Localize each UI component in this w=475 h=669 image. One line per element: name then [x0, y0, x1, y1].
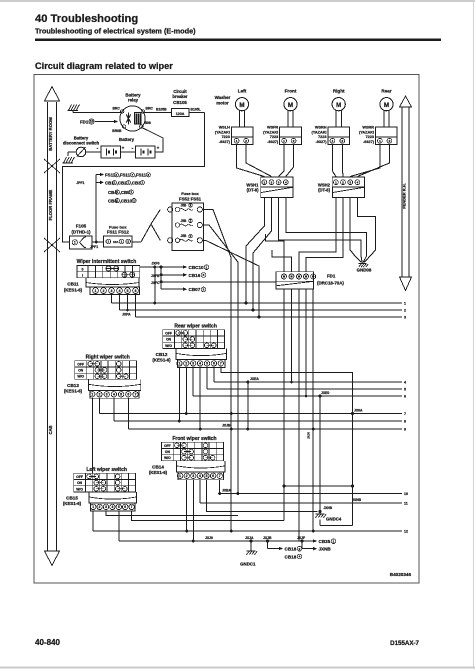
svg-text:WSRR: WSRR [362, 126, 374, 130]
junction JXEA on line 4 with drop to line 9 [246, 377, 259, 431]
label FD1(10) with arrow to relay coil [80, 119, 118, 124]
svg-text:10: 10 [90, 120, 94, 124]
svg-text:(YAZAKI: (YAZAKI [311, 130, 326, 134]
svg-text:ON: ON [77, 481, 83, 485]
svg-text:Left: Left [238, 89, 247, 94]
wires to FD1 pins 1-2 [266, 234, 292, 272]
svg-text:ON: ON [78, 369, 84, 373]
svg-text:1: 1 [404, 302, 406, 306]
svg-text:4: 4 [199, 362, 201, 366]
svg-text:JXJ0: JXJ0 [205, 536, 213, 540]
fuse box FS11 FS12 [104, 225, 132, 248]
svg-text:1: 1 [141, 181, 143, 185]
svg-text:2: 2 [245, 139, 247, 143]
battery relay [112, 93, 153, 133]
svg-text:B105B: B105B [156, 107, 167, 111]
svg-text:JXNB: JXNB [319, 547, 332, 552]
svg-text:3: 3 [105, 505, 107, 509]
ground (battery relay input) [68, 104, 80, 112]
svg-text:Wiper intermittent switch: Wiper intermittent switch [77, 259, 137, 265]
svg-text:I: I [82, 273, 83, 277]
svg-text:BRC: BRC [112, 107, 120, 111]
svg-text:7: 7 [131, 505, 133, 509]
svg-text:OFF: OFF [164, 444, 171, 448]
svg-text:1: 1 [133, 199, 135, 203]
svg-text:CB105: CB105 [173, 100, 187, 105]
washer motor Left (M) [235, 89, 248, 127]
svg-text:4: 4 [404, 381, 406, 385]
svg-text:7223: 7223 [366, 135, 374, 139]
svg-text:ON: ON [165, 450, 171, 454]
connector WSH1 (DT-8) [246, 177, 293, 197]
svg-text:+: + [122, 146, 125, 151]
svg-text:F105: F105 [76, 224, 87, 229]
right section bar (FENDER R.H.) [400, 96, 412, 291]
svg-text:FS52 FS51: FS52 FS51 [179, 197, 202, 202]
wire CB105 to floor frame feed (label B105L) [63, 107, 205, 242]
svg-text:-9327): -9327) [219, 140, 231, 144]
svg-text:-: - [132, 146, 134, 152]
svg-text:3: 3 [111, 289, 113, 293]
connector CB13 (KES1-6) [64, 379, 141, 398]
junction dots on lines 1-3 [245, 302, 261, 319]
wires CB11 pins to lines 1-3 (junction JXPA) [112, 294, 136, 317]
svg-text:1: 1 [113, 181, 115, 185]
junction JX0A on line 7 with drop [351, 408, 363, 525]
svg-text:,CB2: ,CB2 [117, 180, 128, 185]
svg-text:ON: ON [166, 338, 172, 342]
battery disconnect switch [63, 135, 100, 157]
svg-text:CB16: CB16 [189, 273, 201, 278]
svg-text:7223: 7223 [318, 135, 326, 139]
wires WSH2 pins to ground GND08 [350, 198, 375, 256]
svg-text:-9327): -9327) [316, 140, 328, 144]
page header [35, 13, 441, 40]
wire F105 to fuse box FS11 FS12 (junction JPF1) [90, 241, 104, 249]
svg-text:6: 6 [127, 392, 129, 396]
svg-text:7: 7 [131, 173, 133, 177]
svg-text:9: 9 [404, 428, 406, 432]
svg-text:7223: 7223 [221, 135, 229, 139]
svg-text:JXNB: JXNB [352, 498, 362, 502]
svg-text:CB13: CB13 [67, 383, 79, 388]
connector WSLH (YAZAKI 7223-9327) [215, 126, 253, 145]
svg-text:,FS11: ,FS11 [135, 173, 147, 178]
svg-text:5: 5 [127, 289, 129, 293]
svg-text:(DRC18-70A): (DRC18-70A) [317, 281, 344, 286]
svg-text:1: 1 [116, 199, 118, 203]
svg-text:JXFC: JXFC [151, 281, 160, 285]
svg-text:CB07: CB07 [189, 287, 201, 292]
left section bar (BATTERY ROOM / FLOOR FRAME / CAB) [44, 87, 60, 566]
svg-text:1: 1 [92, 505, 94, 509]
svg-text:3: 3 [278, 180, 280, 184]
wires WSH2 pins to FD1 [299, 198, 343, 272]
wire battery positive to relay [143, 128, 164, 152]
svg-text:Left wiper switch: Left wiper switch [86, 467, 127, 473]
connector CB11 (KES1-6) [64, 278, 140, 295]
svg-text:1: 1 [107, 240, 109, 244]
svg-text:OFF: OFF [165, 331, 172, 335]
connector CB15 (KES1-6) [63, 492, 137, 511]
svg-text:W/O: W/O [164, 456, 171, 460]
svg-text:1: 1 [127, 181, 129, 185]
svg-text:+: + [157, 146, 160, 151]
svg-text:,FS11: ,FS11 [119, 173, 131, 178]
svg-text:WSFR: WSFR [267, 126, 278, 130]
svg-text:M: M [239, 102, 244, 109]
svg-text:JXJF: JXJF [297, 536, 305, 540]
svg-text:7: 7 [220, 362, 222, 366]
svg-text:JXJ0: JXJ0 [307, 432, 311, 439]
svg-text:1: 1 [332, 139, 334, 143]
svg-text:2: 2 [299, 547, 301, 551]
svg-text:JXNB: JXNB [324, 506, 333, 510]
svg-text:1: 1 [74, 240, 76, 244]
junction dots center vertical on lines 7 and 9 (JXJB) [222, 412, 233, 431]
svg-text:5: 5 [118, 505, 120, 509]
svg-text:1: 1 [179, 474, 181, 478]
svg-text:8: 8 [147, 173, 149, 177]
svg-text:Battery: Battery [119, 137, 135, 142]
svg-text:FS11 FS12: FS11 FS12 [107, 230, 130, 235]
svg-text:M: M [384, 102, 389, 109]
svg-text:3: 3 [192, 362, 194, 366]
svg-text:JXFB: JXFB [151, 274, 160, 278]
wiper intermittent switch [77, 259, 140, 278]
svg-text:3: 3 [192, 474, 194, 478]
svg-text:1: 1 [95, 289, 97, 293]
svg-text:40-840: 40-840 [35, 638, 60, 647]
connector WSRH (YAZAKI 7223-9327) [311, 126, 349, 145]
battery 1 [86, 146, 121, 159]
svg-text:BR0B: BR0B [112, 129, 122, 133]
svg-text:,CB10: ,CB10 [120, 198, 133, 203]
svg-text:1: 1 [335, 180, 337, 184]
wire FS11/FS12 to fuse box FS52 FS51 [132, 210, 160, 243]
svg-text:(DTHD-1): (DTHD-1) [71, 229, 91, 234]
svg-text:1: 1 [130, 190, 132, 194]
svg-text:1: 1 [333, 539, 335, 543]
svg-text:1: 1 [121, 240, 123, 244]
svg-text:JXE0: JXE0 [321, 391, 329, 395]
svg-text:Troubleshooting of electrical: Troubleshooting of electrical system (E-… [35, 27, 196, 36]
harness lines to fender connector pins 1-12 [93, 302, 408, 534]
svg-text:Right wiper switch: Right wiper switch [86, 355, 130, 361]
svg-text:breaker: breaker [172, 94, 188, 99]
svg-text:120A: 120A [176, 112, 185, 116]
svg-text:W/O: W/O [76, 487, 83, 491]
svg-text:2: 2 [103, 289, 105, 293]
svg-text:3: 3 [203, 287, 205, 291]
svg-text:WSLH: WSLH [219, 126, 230, 130]
svg-text:(KES1-6): (KES1-6) [64, 389, 83, 394]
svg-text:6: 6 [115, 173, 117, 177]
junction JXBA on line 10 [218, 488, 231, 495]
diagram title [35, 61, 173, 71]
svg-text:4: 4 [285, 180, 287, 184]
svg-text:B105L: B105L [191, 107, 201, 111]
svg-text:2: 2 [271, 180, 273, 184]
svg-text:Fuse box: Fuse box [181, 191, 199, 196]
svg-text:40 Troubleshooting: 40 Troubleshooting [35, 13, 138, 25]
svg-text:GNDC4: GNDC4 [326, 517, 342, 522]
connector WSH2 (DT-8) [318, 177, 365, 197]
svg-text:3: 3 [404, 316, 406, 320]
svg-text:B08: B08 [145, 121, 151, 125]
svg-text:CB11: CB11 [67, 282, 79, 287]
svg-text:2: 2 [127, 240, 129, 244]
svg-text:GND08: GND08 [357, 268, 372, 273]
svg-text:5: 5 [206, 474, 208, 478]
svg-text:-9327): -9327) [267, 140, 279, 144]
svg-text:-9327): -9327) [363, 140, 375, 144]
junction JXE0 on line 6 with drop to GNDC4 [319, 391, 330, 512]
svg-text:2: 2 [185, 362, 187, 366]
connector WSFR (YAZAKI 7223-9327) [263, 126, 301, 145]
svg-text:7223: 7223 [270, 135, 278, 139]
junction JXJA with ground GNDC1 [240, 536, 257, 567]
svg-text:JXJB: JXJB [263, 536, 272, 540]
ground (battery disconnect switch) [64, 157, 67, 163]
svg-text:BRC: BRC [146, 107, 154, 111]
svg-text:Circuit diagram related to wip: Circuit diagram related to wiper [35, 61, 173, 71]
svg-text:OFF: OFF [76, 475, 83, 479]
washer motor Front (M) [284, 89, 297, 127]
svg-text:5: 5 [206, 362, 208, 366]
svg-text:disconnect switch: disconnect switch [63, 140, 100, 145]
svg-text:relay: relay [128, 98, 139, 103]
svg-text:2: 2 [99, 505, 101, 509]
svg-text:CB18: CB18 [285, 547, 297, 552]
svg-text:J5B: J5B [181, 234, 188, 238]
svg-text:(KES1-6): (KES1-6) [149, 470, 168, 475]
Right wiper switch contact table [75, 355, 137, 380]
svg-text:CAB: CAB [48, 425, 53, 434]
svg-text:JPF1: JPF1 [76, 181, 84, 185]
svg-text:2: 2 [99, 392, 101, 396]
svg-text:FLOOR FRAME: FLOOR FRAME [48, 189, 53, 220]
washer motor Right (M) [332, 89, 345, 127]
wires washer motor connectors to WSH1 [237, 145, 294, 177]
wire relay to circuit breaker [145, 107, 172, 112]
svg-text:GNDC1: GNDC1 [240, 562, 256, 567]
Rear wiper switch contact table [163, 324, 225, 349]
wires WSH1 pins to harness lines 1-2 [246, 198, 272, 310]
svg-text:Washer: Washer [215, 95, 231, 100]
svg-text:3: 3 [203, 273, 205, 277]
svg-text:1: 1 [116, 190, 118, 194]
svg-text:8: 8 [404, 420, 406, 424]
svg-text:W/O: W/O [77, 375, 84, 379]
svg-text:-: - [97, 146, 99, 152]
svg-text:M: M [336, 102, 341, 109]
svg-text:CB14: CB14 [152, 464, 164, 469]
svg-text:4: 4 [199, 474, 201, 478]
svg-text:3: 3 [349, 180, 351, 184]
svg-text:1: 1 [283, 139, 285, 143]
svg-text:6: 6 [213, 362, 215, 366]
wire intermittent switch to junction JXF0 taps [140, 266, 161, 305]
taps JXF0/JXFB/JXFC to CBC10, CB16, CB07 [151, 261, 276, 292]
svg-text:3: 3 [106, 392, 108, 396]
svg-text:JXPA: JXPA [122, 312, 131, 316]
svg-text:(YAZAKI: (YAZAKI [359, 130, 374, 134]
svg-text:JXBA: JXBA [222, 488, 232, 492]
svg-text:4: 4 [113, 392, 115, 396]
svg-text:CB35: CB35 [319, 539, 331, 544]
branch wire to JX0A vertical [283, 485, 355, 488]
svg-text:(KES1-6): (KES1-6) [152, 358, 171, 363]
svg-text:4: 4 [357, 180, 359, 184]
svg-text:1: 1 [178, 362, 180, 366]
junction JXJF taps to CB35 and JXNB [297, 536, 336, 552]
svg-text:JXJB: JXJB [222, 424, 231, 428]
label Washer motor [215, 95, 231, 106]
svg-text:FENDER R.H.: FENDER R.H. [402, 183, 407, 209]
svg-text:10A: 10A [113, 240, 119, 244]
battery 2 [119, 137, 160, 158]
wires CB14 pins to lines 10-11, GNDC4 feed and bottom buses [185, 480, 317, 543]
connector WSRR (YAZAKI 7223-9327) [359, 126, 397, 145]
svg-text:CB12: CB12 [156, 352, 168, 357]
svg-text:11: 11 [404, 502, 408, 506]
svg-text:Rear wiper switch: Rear wiper switch [174, 324, 217, 330]
wires FS52/FS51 outputs to center verticals [202, 210, 259, 532]
Front wiper switch contact table [162, 436, 224, 461]
svg-text:5: 5 [404, 388, 406, 392]
bottom bus line junction dots (to pin 12) [230, 530, 315, 533]
svg-text:BATTERY ROOM: BATTERY ROOM [48, 117, 53, 151]
svg-text:M: M [288, 102, 293, 109]
svg-text:WSRH: WSRH [315, 126, 327, 130]
svg-text:10: 10 [404, 492, 408, 496]
connector CB12 (KES1-6) [152, 348, 226, 367]
wires CB12 pins to lines 4-9 [178, 367, 353, 430]
feed taps list JPF1 (FS11/CB1 etc.) [76, 173, 150, 243]
diagram border frame [34, 75, 419, 584]
svg-text:2: 2 [186, 474, 188, 478]
svg-text:7: 7 [219, 474, 221, 478]
junction dot line 10 fuse vertical [236, 492, 239, 495]
bottom bus JXJ line [119, 536, 302, 541]
svg-text:JXJA: JXJA [245, 536, 254, 540]
svg-text:B4020346: B4020346 [390, 572, 412, 577]
svg-text:Right: Right [333, 89, 345, 94]
svg-text:(KES1-6): (KES1-6) [64, 288, 83, 293]
wire ground to battery relay [73, 112, 121, 114]
wires washer motor connectors to WSH2 [332, 145, 389, 177]
svg-text:JPF1: JPF1 [90, 245, 98, 249]
page footer [35, 638, 420, 647]
svg-text:JX0A: JX0A [354, 408, 363, 412]
svg-text:FD1: FD1 [327, 274, 336, 279]
svg-text:2: 2 [389, 139, 391, 143]
svg-text:Front: Front [285, 89, 297, 94]
svg-text:1: 1 [91, 392, 93, 396]
svg-text:Rear: Rear [381, 89, 391, 94]
svg-text:1: 1 [206, 265, 208, 269]
Left wiper switch contact table [74, 467, 136, 492]
svg-text:CB18: CB18 [285, 554, 297, 559]
svg-text:(YAZAKI: (YAZAKI [263, 130, 278, 134]
wires CB13 pins to lines 7-9 and front switch feed [92, 398, 128, 473]
svg-text:JXF0: JXF0 [151, 261, 159, 265]
washer motor Rear (M) [380, 89, 393, 127]
svg-text:2: 2 [293, 139, 295, 143]
circuit breaker CB105 120A [172, 89, 190, 117]
svg-text:1: 1 [236, 139, 238, 143]
svg-text:1: 1 [379, 139, 381, 143]
svg-text:JXEA: JXEA [250, 377, 259, 381]
wires WSH1 pins to ground GND08 [279, 198, 367, 256]
svg-text:5: 5 [120, 392, 122, 396]
svg-text:12: 12 [404, 530, 408, 534]
svg-text:CBC10: CBC10 [189, 265, 205, 270]
svg-text:(YAZAKI: (YAZAKI [215, 130, 230, 134]
svg-text:,CB3: ,CB3 [131, 180, 142, 185]
svg-text:2: 2 [341, 139, 343, 143]
ground GND08 funnel [355, 250, 376, 273]
svg-text:(DT-8): (DT-8) [318, 188, 330, 193]
svg-text:CB15: CB15 [66, 495, 78, 500]
svg-text:(DT-8): (DT-8) [247, 188, 259, 193]
svg-text:2: 2 [404, 309, 406, 313]
svg-text:7: 7 [404, 412, 406, 416]
connector CB14 (KES1-6) [149, 461, 225, 480]
svg-text:Front wiper switch: Front wiper switch [172, 436, 216, 442]
fuse box FS52 FS51 with three fuses [168, 191, 204, 250]
svg-text:,CB5: ,CB5 [120, 190, 131, 195]
svg-text:OFF: OFF [77, 362, 84, 366]
ground GNDC4 with junction [316, 506, 353, 526]
svg-text:J5B: J5B [181, 219, 188, 223]
svg-text:7: 7 [135, 392, 137, 396]
wires CB15 pins to bottom buses [93, 511, 284, 541]
svg-text:(KES1-6): (KES1-6) [63, 501, 82, 506]
junction JXJB tap to CB18 [263, 536, 302, 560]
svg-text:W/O: W/O [165, 344, 172, 348]
svg-text:0: 0 [82, 267, 84, 271]
svg-text:motor: motor [216, 101, 229, 106]
wires FD1 down drops [284, 289, 315, 541]
svg-text:FD1: FD1 [80, 119, 89, 124]
connector FD1 (DRC18-70A) [276, 272, 344, 289]
svg-text:6: 6 [212, 474, 214, 478]
svg-text:1: 1 [263, 180, 265, 184]
svg-text:6: 6 [404, 395, 406, 399]
svg-text:2: 2 [342, 180, 344, 184]
svg-text:J5B: J5B [181, 203, 188, 207]
svg-text:4: 4 [299, 555, 301, 559]
svg-text:6: 6 [135, 289, 137, 293]
svg-text:4: 4 [119, 289, 121, 293]
svg-text:6: 6 [124, 505, 126, 509]
fusible link F105 (DTHD-1) [70, 224, 93, 250]
svg-text:4: 4 [111, 505, 113, 509]
svg-text:D155AX-7: D155AX-7 [390, 640, 419, 647]
